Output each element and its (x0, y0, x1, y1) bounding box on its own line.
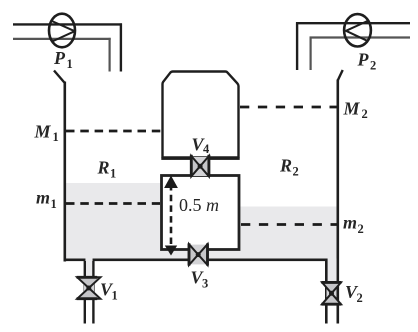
svg-text:0.5 m: 0.5 m (179, 195, 219, 215)
svg-text:R: R (279, 156, 292, 176)
left drain pipe inner wall (92, 261, 94, 324)
valve V1 bowtie triangles (77, 277, 100, 298)
valve V3 body fill (190, 245, 207, 265)
pump P1 discharge elbow inner wall (108, 38, 110, 72)
svg-text:3: 3 (202, 277, 208, 291)
water fill right region of tank R2 (240, 207, 337, 259)
upper vessel bottom edge (161, 157, 239, 160)
0.5 m arrow top head (164, 176, 178, 189)
right outlet pipe inner wall (325, 259, 328, 324)
svg-text:P: P (53, 48, 66, 68)
svg-text:2: 2 (293, 165, 299, 179)
svg-text:1: 1 (51, 197, 57, 211)
water fill strip under lower box (161, 251, 240, 259)
tank bottom line left segment (64, 259, 86, 262)
tank bottom line main segment (93, 259, 328, 262)
pump P2 elbow outer wall (296, 22, 298, 70)
valve V3 bowtie triangles (189, 244, 208, 265)
M2 level dashed line (240, 106, 337, 109)
valve V3 right cap (206, 243, 209, 265)
svg-text:2: 2 (370, 59, 376, 73)
svg-text:1: 1 (67, 57, 73, 71)
svg-text:2: 2 (358, 222, 364, 236)
tank left wall (64, 82, 67, 262)
tank right wall (continues down as outlet pipe outer wall) (337, 80, 340, 324)
valve V4 right cap (207, 155, 210, 177)
pump P2 impeller triangle (346, 21, 368, 42)
M1 level dashed line (66, 130, 162, 133)
pump P1 suction pipe top line (13, 23, 122, 25)
tank left wall top break stub (54, 71, 65, 84)
m2 level dashed line (241, 223, 337, 226)
valve V4 bowtie triangles (191, 156, 209, 176)
water fill inside right drain pipe (328, 258, 337, 304)
svg-text:M: M (34, 122, 52, 142)
pump P1 circle (49, 14, 75, 48)
lower box (162, 176, 240, 250)
svg-text:1: 1 (110, 167, 116, 181)
0.5 m arrow bottom head (165, 246, 177, 256)
pump P2 elbow inner wall (310, 37, 312, 71)
valve V1 body fill (84, 277, 94, 298)
valve V3 left cap (188, 243, 191, 265)
upper vessel (163, 72, 239, 158)
valve V1 center knob (86, 286, 91, 291)
0.5 m dimension arrow dashed shaft (170, 184, 173, 250)
valve V2 top cap (321, 281, 341, 284)
svg-text:1: 1 (53, 130, 59, 144)
valve V2 bowtie triangles (322, 282, 341, 304)
pump P2 suction pipe top line (296, 22, 410, 24)
valve V2 center knob (329, 291, 334, 296)
pump P2 suction pipe bottom line (310, 36, 411, 38)
valve V3 center knob (196, 252, 201, 257)
valve V1 bottom cap (77, 297, 98, 300)
svg-text:1: 1 (112, 289, 118, 303)
svg-text:4: 4 (203, 142, 210, 156)
svg-text:R: R (97, 158, 110, 178)
water fill left region of tank R1 (66, 183, 161, 259)
svg-text:P: P (357, 50, 370, 70)
valve V2 body fill (327, 282, 337, 304)
valve V4 center knob (198, 164, 203, 169)
pump P1 impeller triangle (52, 21, 75, 41)
tank right wall top break stub (338, 70, 343, 81)
svg-text:m: m (343, 213, 357, 233)
m1 level dashed line (66, 202, 160, 205)
valve V4 left cap (190, 155, 193, 177)
valve V2 bottom cap (321, 303, 341, 306)
svg-text:2: 2 (357, 291, 363, 305)
svg-text:m: m (36, 188, 50, 208)
svg-text:2: 2 (362, 107, 368, 121)
valve V4 body fill (192, 157, 208, 176)
pump P1 suction pipe bottom line (13, 38, 111, 40)
water fill in V4 connecting pipe (193, 160, 209, 174)
valve V1 top cap (77, 276, 98, 279)
pump P1 discharge elbow outer wall (120, 23, 122, 71)
pump P2 circle (344, 14, 371, 46)
water fill inside left drain pipe (86, 258, 92, 299)
left drain pipe outer wall (84, 261, 86, 324)
svg-text:M: M (343, 99, 361, 119)
